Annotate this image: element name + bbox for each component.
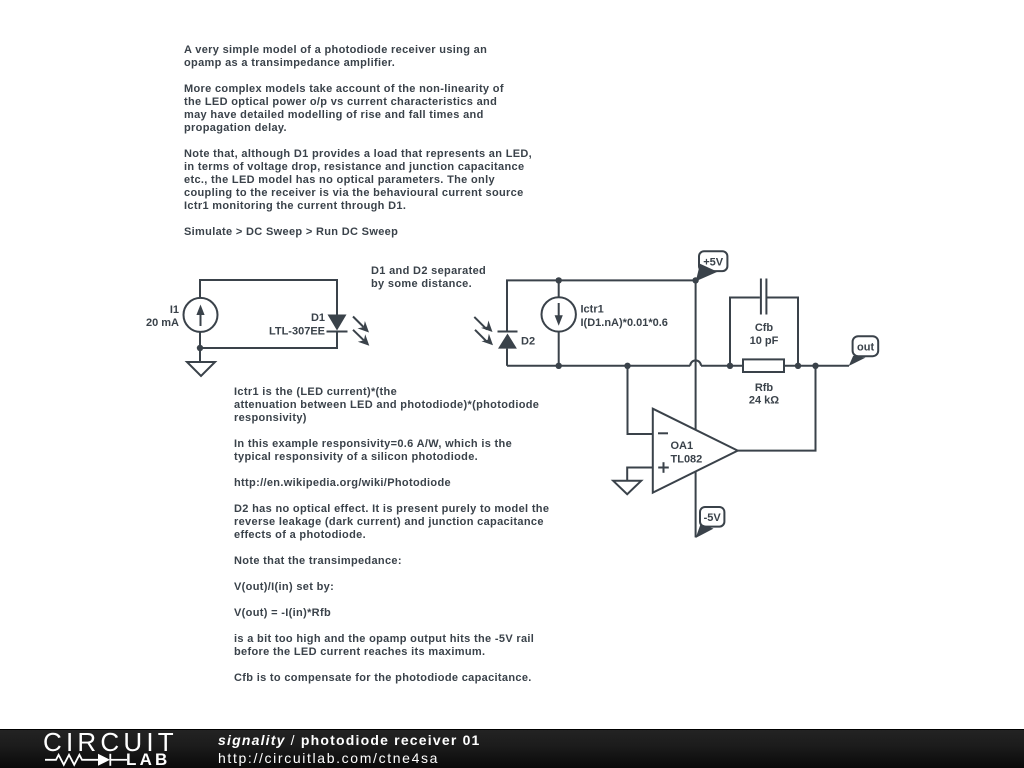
svg-text:Cfb: Cfb bbox=[755, 322, 774, 334]
svg-text:-5V: -5V bbox=[704, 512, 722, 524]
svg-text:TL082: TL082 bbox=[671, 454, 703, 466]
svg-text:I1: I1 bbox=[170, 304, 179, 316]
svg-text:OA1: OA1 bbox=[671, 440, 694, 452]
svg-text:LTL-307EE: LTL-307EE bbox=[269, 326, 325, 338]
svg-text:D1: D1 bbox=[311, 312, 325, 324]
svg-text:Ictr1: Ictr1 bbox=[581, 303, 604, 315]
svg-text:10 pF: 10 pF bbox=[750, 335, 779, 347]
svg-text:24 kΩ: 24 kΩ bbox=[749, 395, 779, 407]
svg-text:D2: D2 bbox=[521, 335, 535, 347]
svg-text:+5V: +5V bbox=[703, 257, 724, 269]
svg-text:LAB: LAB bbox=[126, 750, 171, 768]
svg-text:out: out bbox=[857, 342, 874, 354]
svg-text:I(D1.nA)*0.01*0.6: I(D1.nA)*0.01*0.6 bbox=[581, 317, 668, 329]
svg-text:Rfb: Rfb bbox=[755, 382, 774, 394]
svg-text:20 mA: 20 mA bbox=[146, 317, 179, 329]
